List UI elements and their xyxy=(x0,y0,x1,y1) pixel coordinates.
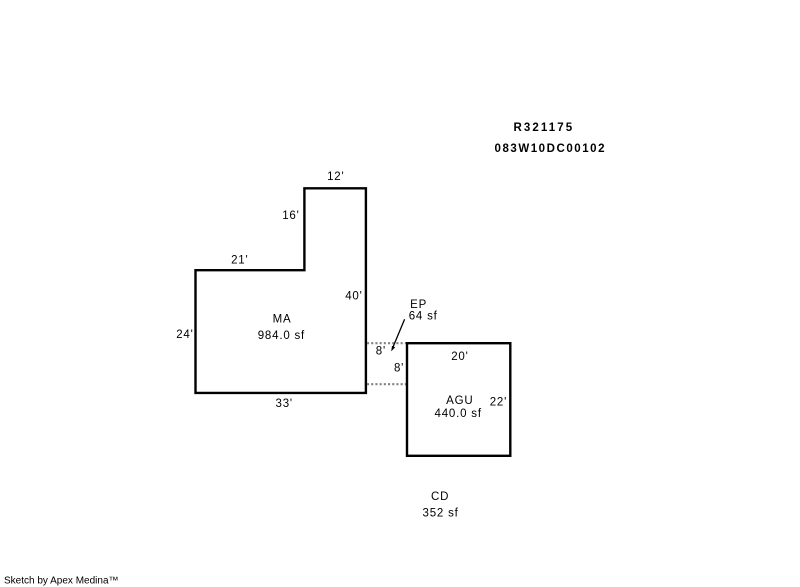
svg-text:MA: MA xyxy=(273,313,292,325)
svg-text:8': 8' xyxy=(394,362,404,374)
svg-text:22': 22' xyxy=(490,397,507,409)
building MA outline xyxy=(196,188,366,393)
svg-text:21': 21' xyxy=(231,254,248,266)
svg-text:EP: EP xyxy=(410,299,427,311)
svg-text:R321175: R321175 xyxy=(514,122,575,134)
svg-text:8': 8' xyxy=(376,346,386,358)
svg-text:12': 12' xyxy=(327,171,344,183)
svg-text:24': 24' xyxy=(176,329,193,341)
svg-text:CD: CD xyxy=(431,491,449,503)
building AGU outline xyxy=(407,343,510,456)
svg-text:AGU: AGU xyxy=(446,395,473,407)
EP top dashed wire xyxy=(367,342,406,344)
svg-text:352 sf: 352 sf xyxy=(423,508,459,520)
EP bottom dashed wire xyxy=(367,383,406,385)
svg-text:440.0 sf: 440.0 sf xyxy=(435,408,482,420)
svg-text:64 sf: 64 sf xyxy=(409,310,438,322)
EP leader line xyxy=(391,319,404,351)
svg-text:33': 33' xyxy=(276,398,293,410)
svg-text:Sketch by Apex Medina™: Sketch by Apex Medina™ xyxy=(4,576,119,587)
svg-text:20': 20' xyxy=(451,351,468,363)
svg-text:083W10DC00102: 083W10DC00102 xyxy=(495,143,607,155)
svg-text:40': 40' xyxy=(345,290,362,302)
svg-text:984.0 sf: 984.0 sf xyxy=(258,330,305,342)
svg-text:16': 16' xyxy=(282,210,299,222)
